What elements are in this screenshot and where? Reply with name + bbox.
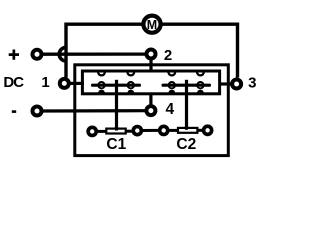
terminal - <box>33 107 42 116</box>
outer board rectangle <box>75 65 229 156</box>
svg-text:1: 1 <box>41 74 49 91</box>
wire left actuator drop to C1 <box>115 80 118 128</box>
crossover hop <box>59 47 66 61</box>
svg-text:C1: C1 <box>106 136 126 153</box>
capacitor C2 <box>160 126 212 134</box>
node 3 terminal <box>232 80 241 89</box>
svg-text:DC: DC <box>3 74 24 91</box>
capacitor C1 <box>88 127 141 136</box>
switch top contact c <box>168 72 175 75</box>
wire right actuator drop to C2 <box>185 80 188 128</box>
node 1 terminal <box>60 79 69 88</box>
svg-text:4: 4 <box>165 101 174 118</box>
svg-text:3: 3 <box>248 75 256 92</box>
motor M <box>143 16 160 33</box>
wire pin1 to switch <box>70 82 85 85</box>
wire switch to pin3 <box>219 82 233 85</box>
wire - to pin4 <box>42 109 146 113</box>
switch moving contact 2 <box>127 82 135 94</box>
label + <box>9 50 19 60</box>
label - <box>12 110 16 113</box>
switch moving contact 1 <box>97 82 105 94</box>
terminal + <box>33 50 42 59</box>
wire pin4 up to switch <box>149 94 152 105</box>
svg-text:M: M <box>147 18 157 32</box>
switch top contact d <box>197 72 204 75</box>
wire pin2 drop <box>149 58 152 72</box>
wire top motor loop <box>66 24 238 77</box>
switch moving contact 3 <box>168 82 176 94</box>
wire + to pin2 <box>42 52 146 55</box>
node 2 terminal <box>147 50 156 59</box>
switch left shorting bar <box>93 84 140 87</box>
switch top contact b <box>127 72 134 75</box>
svg-text:C2: C2 <box>176 136 196 153</box>
svg-text:2: 2 <box>164 47 172 64</box>
switch right shorting bar <box>163 84 210 87</box>
switch moving contact 4 <box>196 82 204 94</box>
switch top contact a <box>98 72 105 75</box>
node 4 terminal <box>146 106 155 115</box>
switch S1 body <box>82 71 219 94</box>
wire C1 to C2 <box>141 129 160 132</box>
